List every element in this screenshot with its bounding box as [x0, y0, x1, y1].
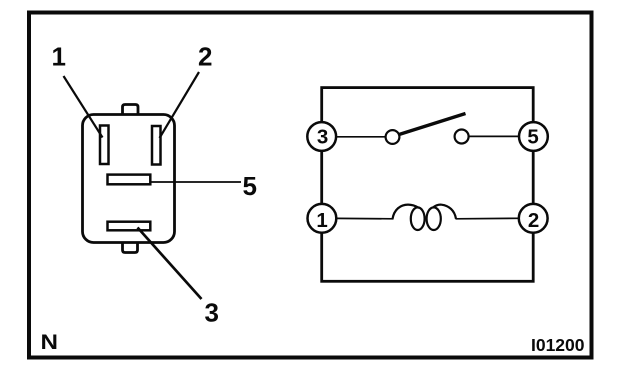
pin 2 slot: [152, 126, 161, 165]
svg-text:1: 1: [52, 42, 66, 72]
relay connector body: [83, 115, 175, 243]
terminal 5: [519, 122, 548, 151]
svg-text:3: 3: [317, 125, 328, 148]
leader line to pin 2: [160, 72, 200, 138]
terminal 2: [519, 204, 548, 233]
pin 5 slot: [108, 175, 151, 185]
wire switch contact to terminal 5: [469, 135, 520, 137]
svg-text:I01200: I01200: [531, 335, 585, 355]
leader line to pin 5: [150, 181, 241, 183]
relay schematic box: [322, 88, 534, 282]
pin 1 slot: [100, 126, 109, 165]
coil loop 1: [411, 207, 425, 230]
connector top tab: [123, 105, 139, 115]
svg-text:2: 2: [198, 42, 212, 72]
svg-text:N: N: [41, 331, 59, 354]
leader line to pin 3: [138, 228, 202, 300]
terminal 1: [308, 204, 337, 233]
connector bottom tab: [123, 243, 138, 253]
wire terminal 3 to switch contact: [336, 136, 386, 138]
wire terminal 1 to coil: [337, 217, 394, 219]
coil left arc: [393, 205, 420, 219]
svg-text:5: 5: [243, 171, 257, 201]
leader line to pin 1: [64, 76, 103, 138]
switch contact a: [386, 130, 400, 144]
svg-text:5: 5: [527, 125, 538, 148]
svg-text:1: 1: [316, 209, 327, 232]
coil loop 2: [427, 207, 441, 230]
pin 3 slot: [108, 222, 151, 231]
terminal 3: [307, 122, 336, 151]
coil right arc: [433, 205, 456, 219]
switch blade: [399, 114, 466, 135]
svg-text:3: 3: [205, 298, 219, 328]
svg-text:2: 2: [528, 209, 539, 232]
switch contact b: [455, 130, 469, 144]
wire coil to terminal 2: [456, 217, 520, 220]
